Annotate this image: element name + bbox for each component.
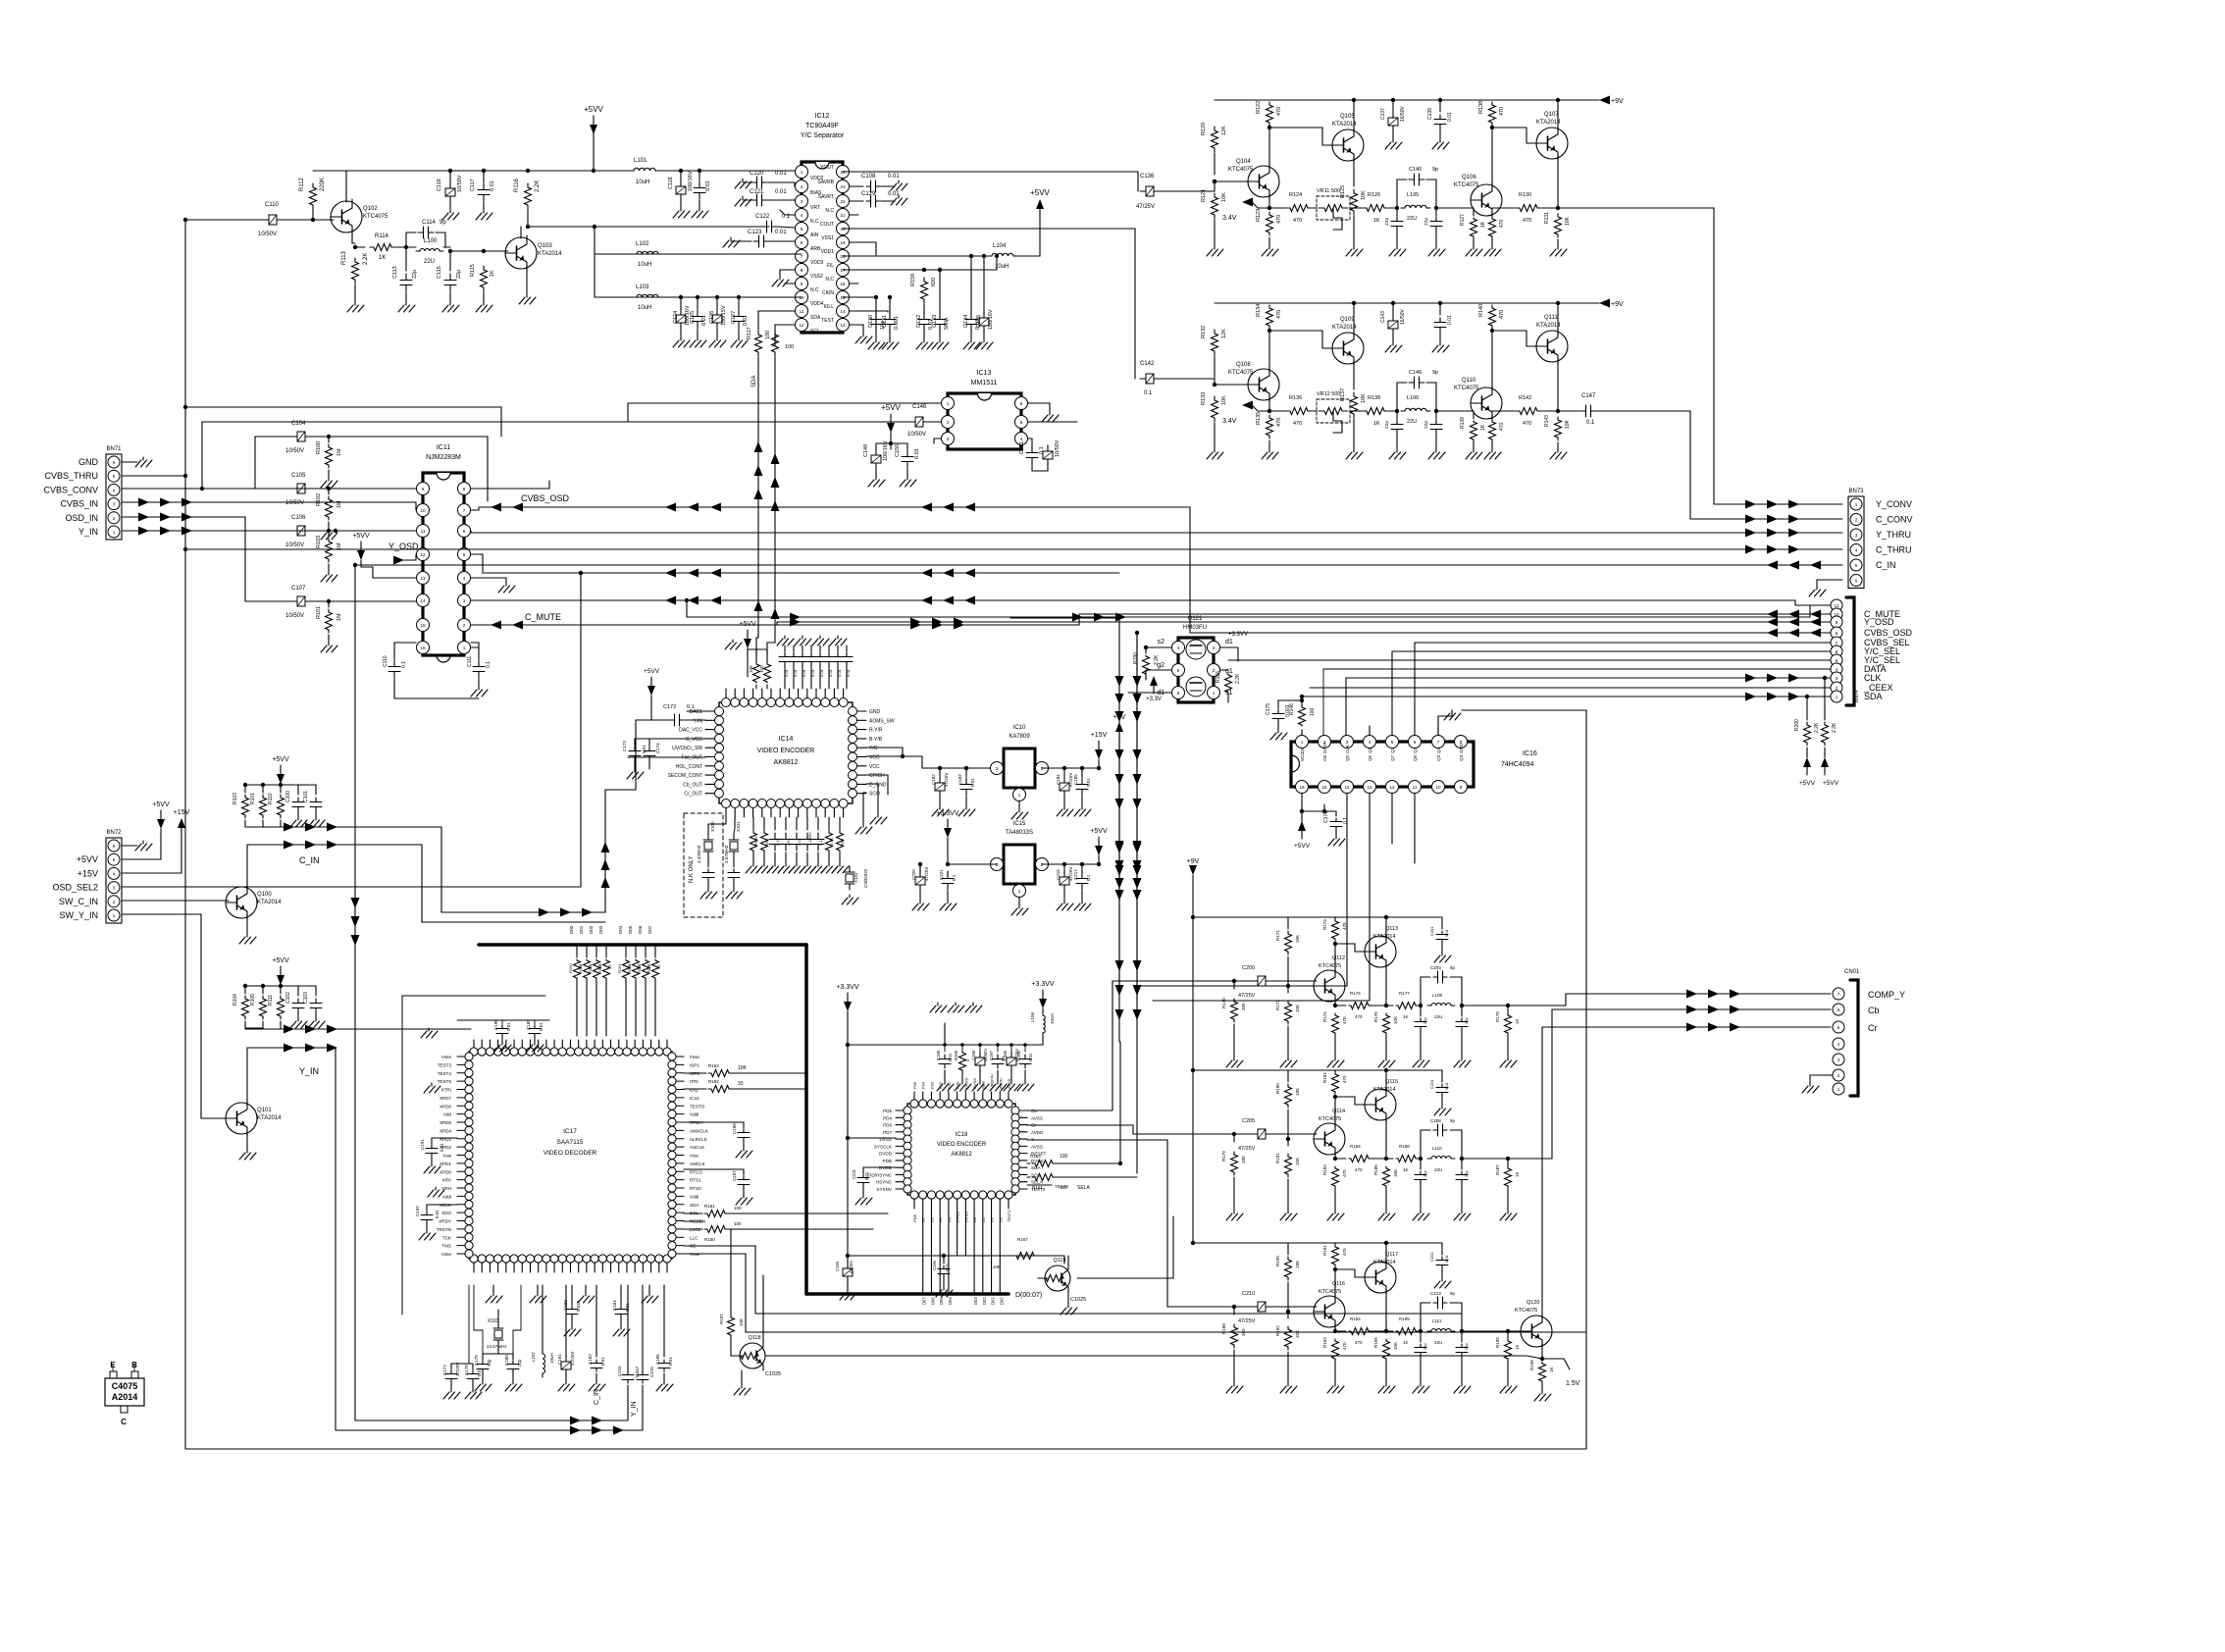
svg-text:C172: C172 [663,704,676,710]
svg-text:SELA: SELA [1077,1185,1090,1191]
svg-text:2.2K: 2.2K [363,253,369,265]
svg-text:Cb_OUT: Cb_OUT [683,782,702,788]
svg-text:XDO: XDO [441,1211,451,1215]
svg-text:N.C: N.C [810,219,819,225]
svg-text:470: 470 [1342,1016,1347,1024]
svg-text:TC90A49F: TC90A49F [805,123,839,129]
svg-text:Q4: Q4 [1436,747,1441,753]
svg-text:R120: R120 [1201,123,1207,135]
svg-text:1: 1 [801,170,803,175]
svg-text:22U: 22U [1407,419,1417,425]
svg-text:C107: C107 [291,586,306,592]
svg-text:0.01: 0.01 [888,191,900,197]
svg-text:VIDEO ENCODER: VIDEO ENCODER [757,748,815,754]
svg-text:22p: 22p [456,270,462,279]
svg-text:KTA2014: KTA2014 [1332,122,1357,128]
svg-text:R104: R104 [233,994,238,1006]
svg-text:R101: R101 [250,793,256,804]
svg-text:1K: 1K [1515,1344,1520,1350]
svg-text:1.5V: 1.5V [1566,1380,1580,1387]
svg-text:11: 11 [800,309,804,314]
svg-text:VDD4: VDD4 [810,301,824,307]
svg-text:10/50V: 10/50V [457,175,463,192]
svg-text:TEST: TEST [821,318,834,324]
svg-text:KTA2014: KTA2014 [538,251,562,257]
svg-text:0.01: 0.01 [1086,778,1091,787]
svg-text:IDQ: IDQ [690,1088,699,1093]
svg-text:1: 1 [463,645,466,650]
svg-text:s2: s2 [1158,639,1165,645]
svg-text:C193: C193 [835,1261,840,1271]
svg-text:1K: 1K [1403,1167,1409,1172]
svg-text:220: 220 [786,839,791,846]
svg-text:R181: R181 [1275,1153,1280,1163]
svg-text:100/16V: 100/16V [688,171,694,191]
svg-text:0.01: 0.01 [888,174,900,180]
svg-text:100/15V: 100/15V [721,305,727,326]
svg-text:+3.3VV: +3.3VV [936,810,958,817]
svg-text:16: 16 [420,645,426,650]
svg-text:Vsse: Vsse [441,1055,452,1059]
svg-text:ASCLK: ASCLK [690,1145,705,1150]
svg-text:Y_IN: Y_IN [299,1066,319,1076]
svg-text:TEST1: TEST1 [1007,1210,1011,1222]
svg-text:22p: 22p [1384,421,1390,429]
svg-text:ALRCLK: ALRCLK [690,1137,708,1142]
svg-text:D04: D04 [618,925,623,934]
svg-text:22U: 22U [1434,1014,1442,1019]
svg-text:AVSS: AVSS [1031,1115,1043,1120]
svg-text:R161: R161 [1032,1185,1043,1190]
svg-text:VCC: VCC [869,764,880,770]
svg-text:R114: R114 [375,233,389,239]
svg-text:L102: L102 [636,241,649,247]
svg-text:Q115: Q115 [1385,1079,1398,1085]
svg-text:1K: 1K [1373,218,1380,224]
svg-text:470: 470 [1499,219,1505,228]
svg-text:0.1: 0.1 [1144,390,1153,396]
svg-text:R167: R167 [1017,1237,1028,1242]
svg-text:+5VV: +5VV [352,533,370,540]
svg-text:P04: P04 [921,1081,926,1089]
svg-text:B-Y/B: B-Y/B [869,737,883,743]
svg-text:R113: R113 [341,250,347,265]
svg-text:VDD1: VDD1 [821,249,835,255]
svg-text:C_IN: C_IN [1876,560,1896,570]
svg-text:DVDD: DVDD [879,1165,893,1170]
svg-text:TEST5: TEST5 [438,1079,452,1084]
svg-text:N.C: N.C [825,277,834,283]
svg-text:R198: R198 [1529,1360,1534,1370]
svg-text:3.2/50V: 3.2/50V [807,832,812,846]
svg-text:KTA2014: KTA2014 [1373,1260,1396,1265]
svg-text:Q112: Q112 [1332,955,1345,961]
svg-text:C182: C182 [588,1354,593,1365]
svg-text:L110: L110 [1432,1146,1442,1151]
svg-text:C174: C174 [655,743,660,753]
svg-text:0.01: 0.01 [819,668,824,677]
svg-text:C183: C183 [957,774,962,785]
svg-text:L111: L111 [1432,1318,1442,1323]
svg-text:3: 3 [996,766,999,771]
svg-text:Y_IN: Y_IN [78,527,98,537]
svg-text:3.4V: 3.4V [1222,215,1237,222]
svg-text:R153: R153 [597,963,602,973]
svg-text:1K: 1K [1373,421,1380,427]
svg-text:SYSNV: SYSNV [876,1187,893,1192]
svg-text:0.01: 0.01 [1444,1081,1449,1090]
svg-text:0.01: 0.01 [668,1357,673,1366]
svg-text:SW_Y_IN: SW_Y_IN [59,910,98,920]
svg-text:0.01: 0.01 [837,668,842,677]
svg-text:ITRI: ITRI [690,1079,699,1084]
svg-text:C_THRU: C_THRU [1876,545,1912,555]
svg-text:100: 100 [1310,707,1316,716]
svg-text:1: 1 [1018,793,1021,798]
svg-text:FIL: FIL [827,263,834,269]
svg-text:Q113: Q113 [1385,926,1398,932]
svg-text:C180: C180 [504,1355,509,1366]
svg-text:R115: R115 [470,264,476,277]
svg-text:820: 820 [931,278,937,286]
svg-text:TCK: TCK [442,1235,452,1240]
svg-text:0.01: 0.01 [864,1171,869,1180]
svg-text:Q3: Q3 [1413,747,1418,753]
svg-text:XPD0: XPD0 [440,1169,451,1174]
svg-text:+5VV: +5VV [77,854,98,864]
svg-text:3: 3 [463,598,466,603]
svg-text:0.1: 0.1 [486,661,492,668]
svg-text:C149: C149 [863,444,869,457]
svg-text:470: 470 [1499,107,1505,116]
svg-text:R190: R190 [1133,652,1139,664]
svg-text:22p: 22p [1423,1017,1427,1024]
svg-text:VR12 500: VR12 500 [1317,391,1340,397]
svg-text:KA7809: KA7809 [1009,734,1030,740]
svg-text:XPD4: XPD4 [440,1128,451,1133]
svg-text:C122: C122 [755,214,770,220]
svg-text:18K: 18K [1295,1261,1300,1268]
svg-text:10K: 10K [1221,395,1227,405]
svg-text:Vddi: Vddi [442,1194,451,1199]
svg-text:11: 11 [1835,603,1839,608]
svg-text:C220: C220 [911,869,916,880]
svg-text:R187: R187 [1495,1164,1500,1175]
svg-text:5: 5 [1836,658,1838,663]
svg-text:TEST3: TEST3 [438,1062,452,1067]
svg-text:R150: R150 [568,963,573,973]
svg-text:Y_OSD: Y_OSD [1864,617,1894,627]
svg-text:C130: C130 [868,315,874,328]
svg-text:FID/HSYNC: FID/HSYNC [867,1172,892,1177]
svg-text:R134: R134 [1256,304,1262,317]
svg-text:R151: R151 [704,1204,715,1209]
svg-text:560p: 560p [944,318,950,330]
svg-text:GND: GND [1459,743,1464,753]
svg-text:Y-IN: Y-IN [693,718,702,724]
svg-text:0.01: 0.01 [802,668,806,677]
svg-text:C190: C190 [493,1019,498,1030]
svg-text:Vdd: Vdd [443,1112,452,1117]
svg-text:AOMS_SW: AOMS_SW [869,718,895,724]
svg-text:R180: R180 [1275,1083,1280,1094]
svg-text:C135: C135 [976,315,982,328]
svg-text:R175: R175 [1350,991,1361,996]
svg-text:SW_C_IN: SW_C_IN [59,897,98,906]
svg-text:PD4: PD4 [883,1115,892,1120]
svg-text:Fsse: Fsse [690,1055,699,1059]
svg-text:C129: C129 [861,191,876,197]
svg-text:C1025: C1025 [765,1371,781,1377]
svg-text:13: 13 [420,576,426,581]
svg-text:1: 1 [113,530,116,535]
svg-text:CSB5932: CSB5932 [863,868,868,888]
svg-text:100: 100 [785,344,794,350]
svg-text:23: 23 [840,184,846,189]
svg-text:0.01: 0.01 [828,668,833,677]
svg-text:Q116: Q116 [1332,1281,1345,1287]
svg-text:SAVRT: SAVRT [818,194,834,200]
svg-text:470: 470 [1276,107,1282,116]
svg-text:Cr: Cr [1868,1023,1878,1033]
svg-text:A2014: A2014 [112,1392,138,1402]
svg-text:9: 9 [422,487,425,491]
svg-text:C102: C102 [285,992,291,1004]
svg-text:+3.3VV: +3.3VV [1031,981,1054,988]
svg-text:XPD7: XPD7 [440,1096,451,1101]
svg-text:R178: R178 [1495,1011,1500,1022]
svg-text:C179: C179 [474,1355,479,1366]
svg-text:C183: C183 [563,1300,568,1311]
svg-text:22p: 22p [412,270,418,279]
svg-text:DAC_VCC: DAC_VCC [679,728,702,734]
svg-text:1K: 1K [1515,1018,1520,1024]
svg-text:C187: C187 [732,1170,737,1181]
svg-text:47/25V: 47/25V [1238,993,1256,999]
svg-text:ICLK: ICLK [690,1096,700,1101]
svg-text:CP/CH: CP/CH [869,773,885,779]
svg-text:10K: 10K [1295,1005,1300,1012]
svg-text:0: 0 [965,1058,970,1061]
svg-text:0.01: 0.01 [948,1053,953,1061]
svg-text:22p: 22p [1423,218,1429,226]
svg-text:470: 470 [1499,310,1505,319]
svg-text:470: 470 [1342,1248,1347,1256]
svg-text:C4075: C4075 [112,1381,138,1391]
svg-text:R154: R154 [617,963,622,973]
svg-text:X102: X102 [854,872,858,883]
svg-text:R176: R176 [1373,1011,1378,1022]
svg-text:R102: R102 [316,493,322,506]
svg-text:6: 6 [113,460,116,465]
svg-text:C201: C201 [1429,926,1434,936]
svg-text:R111: R111 [268,995,274,1006]
svg-text:1K: 1K [1480,424,1486,431]
svg-text:C178: C178 [464,1365,469,1375]
svg-text:GND: GND [78,457,99,467]
svg-text:C114: C114 [422,220,437,226]
svg-text:16: 16 [840,282,846,286]
svg-text:CN01: CN01 [1844,969,1860,975]
svg-text:AVSS: AVSS [1031,1144,1043,1149]
svg-text:10K: 10K [1393,1016,1398,1024]
svg-text:10/50V: 10/50V [983,1049,988,1061]
svg-text:330: 330 [840,839,845,846]
svg-text:VIDEO DECODER: VIDEO DECODER [543,1150,597,1157]
svg-text:Q109: Q109 [1340,317,1355,323]
svg-text:6: 6 [1020,401,1023,406]
svg-text:R166: R166 [1216,671,1221,683]
svg-text:R188: R188 [1221,1323,1226,1334]
svg-text:R103: R103 [316,536,322,548]
svg-text:PD7: PD7 [883,1130,892,1135]
svg-text:L106: L106 [1407,395,1419,401]
svg-text:2: 2 [113,900,116,904]
svg-text:IC14: IC14 [779,736,794,743]
svg-text:Q7: Q7 [1390,754,1395,761]
svg-text:2: 2 [801,184,803,189]
svg-text:2: 2 [1837,1073,1840,1078]
svg-text:22p: 22p [1423,1170,1427,1177]
svg-text:2: 2 [947,420,950,425]
svg-text:XPD5: XPD5 [440,1120,451,1125]
svg-text:6: 6 [1177,691,1180,696]
svg-text:L101: L101 [634,158,647,164]
svg-text:R183: R183 [1322,1164,1327,1175]
svg-text:+9V: +9V [1611,98,1624,105]
svg-text:16/50V: 16/50V [1400,308,1406,325]
svg-text:C192: C192 [415,1206,420,1216]
svg-text:R162: R162 [708,1063,719,1068]
svg-text:0.001: 0.001 [894,316,900,330]
svg-text:CVBS_THRU: CVBS_THRU [44,471,98,481]
svg-text:DVSS: DVSS [1031,1159,1044,1163]
svg-text:3: 3 [1836,676,1838,681]
svg-text:C117: C117 [470,179,476,191]
svg-text:TMS: TMS [441,1244,451,1249]
svg-text:Q5: Q5 [1345,754,1350,761]
svg-text:C134: C134 [963,315,969,328]
svg-text:+5VV: +5VV [584,105,603,114]
svg-text:470: 470 [1355,1340,1363,1345]
svg-text:C194: C194 [932,1260,937,1270]
svg-text:C_VCC: C_VCC [686,737,702,743]
svg-text:4: 4 [801,213,803,218]
svg-text:C127: C127 [731,311,737,324]
svg-text:470: 470 [1499,422,1505,431]
svg-text:IC12: IC12 [815,113,830,120]
svg-text:AK8812: AK8812 [774,759,799,766]
svg-text:SDA: SDA [810,315,821,321]
svg-text:18K: 18K [1295,935,1300,943]
svg-text:0.01: 0.01 [705,181,711,191]
svg-text:R156: R156 [637,963,642,973]
svg-text:22p: 22p [1464,1170,1469,1177]
svg-text:C116: C116 [437,179,442,191]
svg-text:4: 4 [113,871,116,876]
svg-text:C111: C111 [467,656,473,667]
svg-text:5: 5 [1391,740,1394,745]
svg-text:R136: R136 [1289,395,1302,401]
svg-text:7: 7 [1437,740,1440,745]
svg-text:VSS1: VSS1 [821,235,834,241]
svg-text:KTA2014: KTA2014 [1332,325,1357,331]
svg-text:N.C: N.C [810,287,819,293]
svg-text:22p: 22p [1384,218,1390,226]
svg-text:C110: C110 [265,202,280,208]
svg-text:R139: R139 [1460,417,1466,429]
svg-text:100: 100 [734,1221,742,1226]
svg-text:L106: L106 [1030,1011,1035,1022]
svg-text:5: 5 [1177,668,1180,673]
svg-text:1K: 1K [1480,221,1486,228]
svg-text:OSD_SEL2: OSD_SEL2 [52,883,98,893]
svg-text:C200: C200 [1242,965,1255,971]
svg-text:0.1: 0.1 [1343,817,1349,824]
svg-text:2.2K: 2.2K [1814,722,1820,733]
svg-text:BN71: BN71 [106,446,122,452]
svg-text:VR11 500: VR11 500 [1317,188,1340,194]
svg-text:GND: GND [869,709,881,715]
svg-text:470: 470 [1293,218,1302,224]
svg-text:Vssi: Vssi [690,1154,699,1159]
svg-text:18K: 18K [1295,1088,1300,1096]
svg-text:Y/C Separator: Y/C Separator [801,132,845,139]
svg-text:10K: 10K [739,1318,744,1326]
svg-text:C131: C131 [882,315,888,328]
svg-text:ISP1: ISP1 [690,1062,699,1067]
svg-text:XPD1: XPD1 [440,1162,451,1166]
svg-text:D07: D07 [922,1297,927,1305]
svg-text:+5VV: +5VV [1823,780,1839,787]
svg-text:11: 11 [1413,785,1418,790]
svg-text:D00: D00 [999,1297,1004,1305]
svg-text:R152: R152 [588,963,593,973]
svg-text:XRV: XRV [442,1178,452,1183]
svg-text:KTA2014: KTA2014 [1536,120,1561,126]
svg-text:+5VV: +5VV [272,756,289,763]
svg-text:47/25V: 47/25V [944,773,949,787]
svg-text:C_IN: C_IN [299,855,320,865]
svg-text:470: 470 [1276,215,1282,224]
svg-text:10K: 10K [1295,1330,1300,1338]
svg-text:0.01: 0.01 [775,230,787,235]
svg-text:9: 9 [1836,620,1838,625]
svg-text:D04: D04 [948,1297,953,1305]
svg-text:D05: D05 [628,925,633,934]
svg-text:C210: C210 [1242,1291,1255,1297]
svg-text:LLC: LLC [690,1235,699,1240]
svg-text:C216: C216 [649,1367,654,1377]
svg-text:4.43MHZ: 4.43MHZ [697,845,701,863]
svg-text:Cb: Cb [1868,1006,1880,1015]
svg-text:C147: C147 [1581,393,1596,399]
svg-text:VCC: VCC [1300,751,1305,761]
svg-text:Q104: Q104 [1236,159,1251,165]
svg-text:HM03FU: HM03FU [1183,625,1207,631]
svg-text:X103: X103 [488,1318,499,1324]
svg-text:+5VV: +5VV [739,621,756,628]
svg-text:0.01: 0.01 [945,1263,950,1271]
svg-text:0.01: 0.01 [477,1368,482,1376]
svg-text:0.1: 0.1 [952,874,957,881]
svg-text:C113: C113 [392,266,398,279]
svg-text:12K: 12K [1221,126,1227,135]
svg-text:P05: P05 [912,1081,917,1089]
svg-text:3: 3 [113,886,116,891]
svg-text:R126: R126 [1368,192,1380,198]
svg-text:0.01: 0.01 [810,668,815,677]
